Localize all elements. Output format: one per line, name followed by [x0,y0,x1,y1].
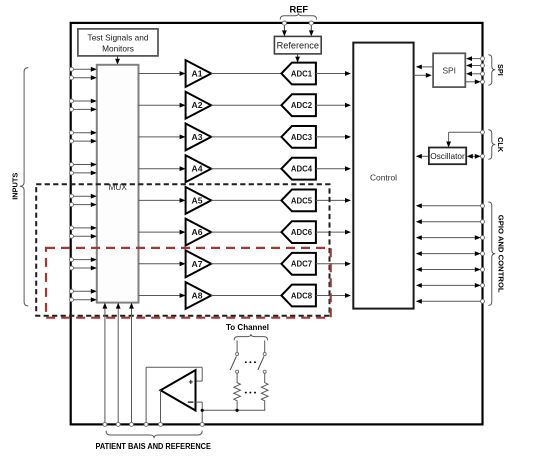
wire: op-amp output to border pin [159,390,163,426]
svg-text:SPI: SPI [496,64,505,76]
svg-text:ADC8: ADC8 [291,291,313,300]
outer chip boundary [71,23,483,425]
amplifier A2 [186,92,212,119]
adc ADC6 [281,221,316,243]
svg-text:CLK: CLK [496,137,505,153]
wire: Reference to ADC1 [295,54,300,63]
svg-text:ADC6: ADC6 [291,228,313,237]
GPIO pin wire 4 [416,251,485,256]
amplifier A3 [186,124,212,151]
svg-text:SPI: SPI [442,66,456,76]
wire: A7 to ADC7 [211,263,281,265]
input pin/wire channel 2b [70,107,97,112]
input pin/wire channel 7b [70,266,97,271]
svg-text:ADC1: ADC1 [291,69,313,78]
brace INPUTS [20,68,28,306]
wire: MUX to amplifier A5 [139,198,186,203]
adc ADC4 [281,158,316,180]
switch S1 [230,341,238,374]
block: MUX [97,65,139,303]
amplifier A4 [186,155,212,182]
op-amp (patient bias driver) [161,370,196,410]
block: Control [353,43,413,309]
wire: MUX to amplifier A2 [139,103,186,108]
adc ADC5 [281,190,316,212]
wire: A4 to ADC4 [211,168,281,170]
input pin/wire channel 2a [70,99,97,104]
input pin/wire channel 3a [70,130,97,135]
ellipsis between resistors [245,392,256,394]
wire: feedback frame (border pin to op-amp + input) [144,367,202,426]
svg-text:Control: Control [370,173,397,183]
adc ADC1 [281,63,316,85]
GPIO pin wire 6 [416,283,485,288]
svg-text:+: + [188,377,193,386]
input pin/wire channel 4a [70,162,97,167]
SPI pin wire 4 [465,79,484,84]
input pin/wire channel 6b [70,234,97,239]
svg-text:A1: A1 [192,69,203,79]
svg-text:Reference: Reference [277,41,319,51]
svg-text:REF: REF [289,4,308,14]
adc ADC3 [281,126,316,148]
wire: op-amp inverting input node [196,402,266,426]
dashed group box (black): channels 5-8 [36,184,329,316]
wire: MUX to amplifier A1 [139,71,186,76]
brace PATIENT BIAS pins [106,431,202,439]
svg-text:PATIENT BAIS AND REFERENCE: PATIENT BAIS AND REFERENCE [95,441,211,451]
resistor R1 [234,373,241,410]
wire: A3 to ADC3 [211,136,281,138]
ellipsis between switches [245,361,256,363]
brace over REF pins [280,13,316,19]
wire: Control to SPI (in) [414,73,432,78]
wire: A1 to ADC1 [211,73,281,75]
wire: A2 to ADC2 [211,104,281,106]
wire: ADC7 to Control [316,261,351,266]
wire: MUX to amplifier A3 [139,135,186,140]
adc ADC8 [281,285,316,307]
SPI pin wire 3 [466,71,485,76]
wire: MUX to amplifier A6 [139,230,186,235]
wire: ADC8 to Control [316,293,351,298]
wire: ADC2 to Control [316,103,351,108]
adc ADC2 [281,94,316,116]
junction dot at resistor R1 bottom [236,409,239,412]
block: Test Signals and Monitors [78,29,158,56]
input pin/wire channel 6a [70,226,97,231]
input pin/wire channel 8b [70,297,97,302]
amplifier A1 [186,60,212,87]
input pin/wire channel 5a [70,194,97,199]
wire: Oscillator to Control [416,154,429,159]
resistor Rn [261,373,268,410]
GPIO pin wire 7 [416,299,485,304]
amplifier A5 [186,187,212,214]
svg-text:ADC3: ADC3 [291,133,313,142]
REF pin 1 wire [282,21,287,36]
input pin/wire channel 5b [70,202,97,207]
amplifier A7 [186,250,212,277]
wire: MUX to amplifier A8 [139,293,186,298]
input pin/wire channel 4b [70,171,97,176]
wire: patient bias to MUX 1 [103,303,108,427]
block: Oscillator [429,148,466,165]
brace GPIO pins [488,202,495,305]
svg-text:ADC5: ADC5 [291,196,313,205]
svg-text:A5: A5 [192,195,203,205]
wire: A6 to ADC6 [211,231,281,233]
wire: ADC3 to Control [316,135,351,140]
svg-text:Oscillator: Oscillator [430,151,465,161]
brace SPI pins [488,55,495,85]
wire: ADC6 to Control [316,230,351,235]
svg-text:ADC2: ADC2 [291,101,313,110]
svg-text:GPIO AND CONTROL: GPIO AND CONTROL [496,215,505,293]
input pin/wire channel 7a [70,257,97,262]
dashed group box (red): channels 7-8 [46,248,331,318]
CLK pin 2 wire (bidirectional) [467,154,485,159]
SPI pin wire 1 [466,56,485,61]
svg-text:A3: A3 [192,132,203,142]
wire: patient bias to MUX 3 [129,303,134,427]
wire: ADC5 to Control [316,198,351,203]
wire: ADC1 to Control [316,71,351,76]
svg-text:A6: A6 [192,227,203,237]
svg-text:To Channel: To Channel [226,323,269,332]
switch Sn [258,341,266,374]
GPIO pin wire 3 [416,235,485,240]
svg-text:A2: A2 [192,100,203,110]
wire: patient bias to MUX 2 [116,303,121,427]
wire: A8 to ADC8 [211,295,281,297]
brace To Channel [234,334,268,340]
GPIO pin wire 5 [416,267,485,272]
svg-text:A7: A7 [192,259,203,269]
svg-text:A8: A8 [192,291,203,301]
wire: A5 to ADC5 [211,199,281,201]
REF pin 2 wire [309,21,314,36]
svg-text:Test Signals and: Test Signals and [88,33,149,43]
svg-text:INPUTS: INPUTS [11,173,20,200]
input pin/wire channel 8a [70,289,97,294]
SPI pin wire 2 [466,63,485,68]
input pin/wire channel 1b [70,75,97,80]
block: SPI [433,53,465,87]
GPIO pin wire 2 [416,219,485,224]
CLK pin 1 wire (to Oscillator top) [446,130,484,147]
amplifier A6 [186,219,212,246]
svg-text:ADC7: ADC7 [291,260,312,269]
svg-text:Monitors: Monitors [102,44,134,54]
svg-text:ADC4: ADC4 [291,165,313,174]
svg-text:A4: A4 [192,164,203,174]
wire: MUX to amplifier A7 [139,261,186,266]
brace CLK pins [488,130,495,160]
wire: MUX to amplifier A4 [139,166,186,171]
input pin/wire channel 3b [70,139,97,144]
amplifier A8 [186,282,212,309]
input pin/wire channel 1a [70,67,97,72]
wire: ADC4 to Control [316,166,351,171]
adc ADC7 [281,253,316,275]
wire: Control to SPI (out) [416,65,433,70]
wire: Test Signals to MUX [115,56,120,65]
block: Reference [274,36,321,54]
GPIO pin wire 1 [416,203,485,208]
